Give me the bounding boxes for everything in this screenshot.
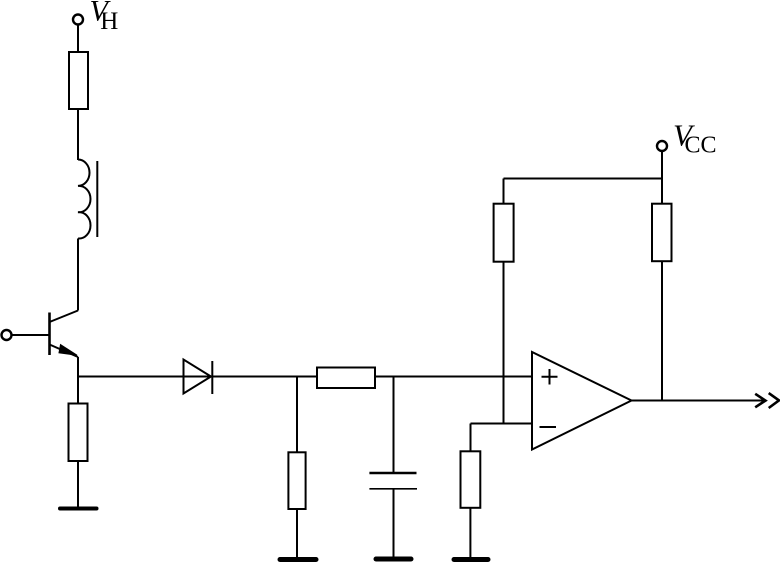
wire R2 to ground bbox=[77, 461, 79, 507]
ground (emitter) bbox=[60, 507, 97, 511]
resistor R3 bbox=[288, 452, 305, 509]
resistor R6 bbox=[652, 204, 672, 262]
terminal VCC circle bbox=[657, 141, 667, 151]
transistor Q1 collector stroke bbox=[50, 311, 79, 323]
capacitor C1 bottom plate bbox=[369, 488, 417, 490]
op-amp plus sign bbox=[542, 369, 558, 385]
resistor R1 bbox=[69, 52, 88, 109]
wire R1 to L1 bbox=[77, 109, 79, 160]
wire minus input bbox=[471, 423, 533, 425]
diode D1 cathode bar bbox=[211, 361, 213, 394]
wire R4 to op-amp + input bbox=[375, 376, 532, 378]
op-amp U1 triangle bbox=[532, 352, 632, 450]
wire R3 to ground bbox=[296, 509, 298, 557]
transistor Q1 base bar bbox=[48, 313, 51, 356]
ground (R3) bbox=[280, 557, 316, 562]
svg-text:CC: CC bbox=[685, 133, 717, 159]
node emitter junction / wire emitter to diode bbox=[78, 376, 317, 378]
output arrow chevron 1 bbox=[755, 394, 765, 408]
transistor Q1 emitter stroke bbox=[50, 345, 79, 358]
label VH bbox=[90, 0, 119, 35]
wire op-amp output bbox=[632, 400, 766, 402]
wire VH to R1 bbox=[77, 25, 79, 53]
transistor Q1 base terminal circle bbox=[2, 330, 12, 340]
resistor R5 bbox=[494, 204, 514, 262]
node after diode / wire down to R3 bbox=[296, 377, 298, 453]
wire R5 down to minus node bbox=[503, 262, 505, 424]
wire VCC down bbox=[661, 151, 663, 204]
diode D1 triangle bbox=[184, 360, 212, 394]
wire top rail bbox=[504, 178, 663, 180]
wire base terminal to base bbox=[12, 334, 50, 336]
label VCC bbox=[673, 118, 717, 159]
wire R7 to ground bbox=[469, 508, 471, 557]
resistor R2 emitter bbox=[69, 404, 88, 462]
ground (C1) bbox=[376, 557, 411, 562]
resistor R7 bbox=[461, 451, 481, 508]
wire R6 down to output node bbox=[661, 261, 663, 400]
svg-text:H: H bbox=[100, 8, 118, 35]
wire emitter down bbox=[77, 357, 79, 404]
wire minus node down to R7 bbox=[470, 424, 472, 452]
op-amp minus sign bbox=[540, 426, 557, 428]
transistor Q1 emitter arrowhead bbox=[59, 345, 77, 356]
resistor R4 series horizontal bbox=[317, 368, 375, 389]
output arrow chevron 2 bbox=[769, 393, 779, 408]
wire rail down to R5 bbox=[503, 179, 505, 204]
inductor L1 bbox=[78, 159, 91, 238]
ground (R7) bbox=[454, 557, 488, 562]
wire C1 to ground bbox=[393, 489, 395, 557]
terminal VH circle bbox=[73, 15, 83, 25]
node after R4 / wire down to C1 bbox=[393, 377, 395, 473]
capacitor C1 top plate bbox=[369, 472, 416, 475]
inductor core bar bbox=[96, 161, 98, 237]
wire L1 to collector bbox=[77, 239, 79, 311]
